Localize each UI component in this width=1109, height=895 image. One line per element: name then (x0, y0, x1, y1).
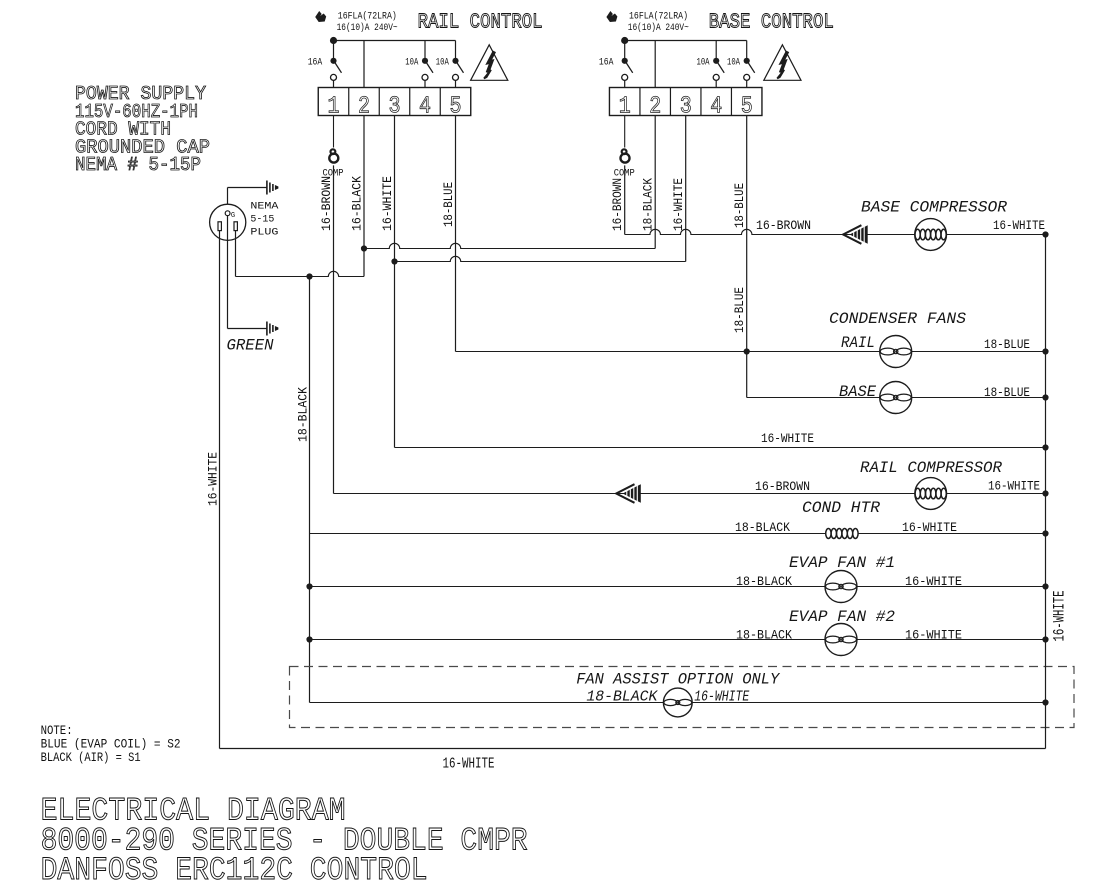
svg-text:PLUG: PLUG (250, 226, 278, 238)
svg-text:18-BLUE: 18-BLUE (732, 287, 747, 333)
rail control rating icon (315, 11, 326, 22)
node rail compressor / right bus (1042, 490, 1048, 496)
svg-text:18-BLACK: 18-BLACK (736, 574, 792, 589)
svg-text:18-BLUE: 18-BLUE (732, 183, 747, 228)
wire base condenser fan row (747, 397, 1046, 399)
svg-text:16-WHITE: 16-WHITE (902, 520, 957, 535)
node plug-hot / 18-black junction (306, 273, 312, 279)
svg-text:18-BLACK: 18-BLACK (736, 628, 792, 643)
svg-text:RAIL CONTROL: RAIL CONTROL (418, 10, 543, 34)
svg-text:4: 4 (710, 93, 722, 120)
fan M-rail-condenser (880, 336, 912, 368)
cord grip (top) (266, 181, 268, 195)
compressor overload COMP symbol (624, 116, 626, 148)
wire white bus (395, 256, 686, 261)
fan M-evap-2 (825, 624, 857, 656)
base control rating icon (606, 11, 617, 22)
warning triangle (base) (764, 45, 801, 81)
node 18-blue / rail condenser fan junction (744, 348, 750, 354)
fan M-evap-1 (825, 571, 857, 603)
NEMA 5-15 plug P1 (210, 204, 246, 240)
switch 16A (rail) (333, 41, 335, 61)
svg-text:16-WHITE: 16-WHITE (905, 628, 962, 643)
svg-text:16(10)A 240V~: 16(10)A 240V~ (337, 21, 398, 33)
svg-text:GREEN: GREEN (227, 337, 274, 355)
node base compressor / right bus (1042, 231, 1048, 237)
wire 16-white bus row (395, 447, 1046, 449)
warning triangle (rail) (471, 45, 508, 81)
svg-text:RAIL: RAIL (841, 334, 875, 352)
wire bus to terminal 2 (654, 41, 656, 88)
svg-text:18-BLACK: 18-BLACK (735, 520, 790, 535)
svg-text:16-BROWN: 16-BROWN (319, 176, 334, 231)
node evap fan 2 tap (306, 636, 312, 642)
svg-text:BASE CONTROL: BASE CONTROL (709, 10, 834, 34)
svg-text:16-WHITE: 16-WHITE (993, 218, 1045, 233)
node evap fan 1 / right bus (1042, 583, 1048, 589)
svg-text:NEMA: NEMA (250, 200, 278, 212)
svg-text:18-BLUE: 18-BLUE (441, 182, 456, 227)
wire 16-black rail t2 vertical (363, 116, 365, 277)
node rail condenser / right bus (1042, 348, 1048, 354)
terminal block base pins 1-5 (609, 88, 762, 116)
switch 10A #1 (rail) (424, 41, 426, 61)
svg-text:BASE: BASE (839, 383, 876, 401)
dashed box FAN ASSIST OPTION (290, 667, 1075, 728)
switch 10A #1 (base) (715, 41, 717, 61)
node base bus (621, 37, 628, 44)
svg-text:18-BLACK: 18-BLACK (296, 387, 311, 442)
svg-text:18-BLUE: 18-BLUE (984, 337, 1030, 352)
svg-text:16-WHITE: 16-WHITE (988, 479, 1040, 494)
base supply bus wire (625, 40, 747, 42)
svg-text:10A: 10A (436, 56, 449, 68)
arrow (base compressor feed) (843, 225, 861, 244)
arrow (rail compressor feed) (616, 484, 634, 503)
svg-text:18-BLACK: 18-BLACK (586, 690, 658, 706)
rail supply bus wire (334, 40, 456, 42)
motor M-rail-compressor (915, 478, 947, 510)
svg-text:18-BLACK: 18-BLACK (641, 178, 656, 231)
wire condensate heater row (310, 533, 1046, 535)
svg-text:10A: 10A (405, 56, 418, 68)
svg-text:16FLA(72LRA): 16FLA(72LRA) (629, 10, 688, 22)
motor M-base-compressor (915, 219, 947, 251)
wire evap fan 1 row (310, 586, 1046, 588)
wire 16-brown base t1 vertical (624, 165, 626, 234)
svg-text:16-WHITE: 16-WHITE (905, 574, 962, 589)
wire bus to terminal 2 (363, 41, 365, 88)
node white row / right bus (1042, 444, 1048, 450)
wire 18-black left vertical (309, 277, 311, 703)
svg-text:EVAP FAN #1: EVAP FAN #1 (789, 554, 895, 572)
wire base compressor row (625, 229, 1046, 234)
wire fan assist row (310, 702, 1046, 704)
terminal block rail pins 1-5 (318, 88, 471, 116)
wire 18-blue rail t5 vertical (455, 116, 457, 352)
wire black bus (364, 243, 655, 248)
svg-text:16-WHITE: 16-WHITE (1051, 591, 1069, 642)
svg-text:4: 4 (419, 93, 431, 120)
svg-text:16-BLACK: 16-BLACK (350, 176, 365, 231)
node rail bus (330, 37, 337, 44)
switch 16A (base) (624, 41, 626, 61)
wire 16-brown rail t1 vertical (333, 165, 335, 493)
node black bus tap (361, 245, 367, 251)
cord grip (green) (266, 322, 268, 336)
svg-text:10A: 10A (697, 56, 710, 68)
svg-text:16-BROWN: 16-BROWN (755, 479, 810, 494)
svg-text:18-BLUE: 18-BLUE (984, 385, 1030, 400)
svg-text:16-BROWN: 16-BROWN (756, 218, 811, 233)
node cond htr / right bus (1042, 530, 1048, 536)
heater coil (cond htr) (826, 533, 858, 535)
node white bus tap (391, 258, 397, 264)
node fan assist / right bus (1042, 699, 1048, 705)
fan M-fan-assist (663, 688, 692, 717)
svg-text:BASE COMPRESSOR: BASE COMPRESSOR (861, 199, 1007, 217)
node evap fan 2 / right bus (1042, 636, 1048, 642)
svg-text:COND HTR: COND HTR (802, 499, 880, 517)
wire plug hot to rail terminal 2 (236, 271, 365, 276)
wire 16-white rail t3 vertical (394, 116, 396, 448)
svg-text:DANFOSS ERC112C CONTROL: DANFOSS ERC112C CONTROL (41, 853, 428, 889)
svg-text:16-WHITE: 16-WHITE (206, 452, 221, 506)
svg-text:NEMA # 5-15P: NEMA # 5-15P (75, 154, 201, 177)
wire evap fan 2 row (310, 639, 1046, 641)
node evap fan 1 tap (306, 583, 312, 589)
switch 10A #2 (rail) (455, 41, 457, 61)
wire plug hot down (235, 231, 237, 277)
wire plug top to cord grip (227, 188, 229, 205)
svg-text:G: G (231, 212, 235, 220)
svg-text:FAN ASSIST OPTION ONLY: FAN ASSIST OPTION ONLY (576, 670, 780, 688)
svg-text:16-WHITE: 16-WHITE (761, 431, 814, 446)
wire rail condenser fan row (456, 351, 1046, 353)
svg-text:BLACK (AIR) = S1: BLACK (AIR) = S1 (41, 750, 141, 765)
svg-text:16A: 16A (308, 56, 323, 68)
wire rail compressor row (334, 493, 1046, 495)
wire 16-white neutral (left vertical) (219, 231, 221, 749)
svg-text:16-WHITE: 16-WHITE (671, 178, 686, 231)
wire 18-blue base t5 vertical (746, 116, 748, 398)
svg-text:10A: 10A (727, 56, 740, 68)
svg-text:16FLA(72LRA): 16FLA(72LRA) (338, 10, 397, 22)
svg-text:RAIL COMPRESSOR: RAIL COMPRESSOR (860, 459, 1002, 477)
wire bottom 16-white return (220, 748, 1046, 750)
svg-text:5-15: 5-15 (250, 213, 274, 225)
svg-text:16-WHITE: 16-WHITE (443, 755, 495, 772)
wire right 16-white bus (1045, 235, 1047, 749)
node base condenser / right bus (1042, 394, 1048, 400)
wire 16-white base t3 vertical (685, 116, 687, 262)
svg-text:16-WHITE: 16-WHITE (694, 690, 749, 706)
svg-text:16(10)A 240V~: 16(10)A 240V~ (628, 21, 689, 33)
svg-text:16A: 16A (599, 56, 614, 68)
fan M-base-condenser (880, 382, 912, 414)
wire green ground (227, 216, 229, 329)
svg-text:16-BROWN: 16-BROWN (610, 178, 625, 231)
switch 10A #2 (base) (746, 41, 748, 61)
compressor overload COMP symbol (333, 116, 335, 148)
wire 18-black base t2 vertical (654, 116, 656, 249)
svg-text:CONDENSER FANS: CONDENSER FANS (829, 310, 966, 328)
svg-text:16-WHITE: 16-WHITE (380, 176, 395, 231)
